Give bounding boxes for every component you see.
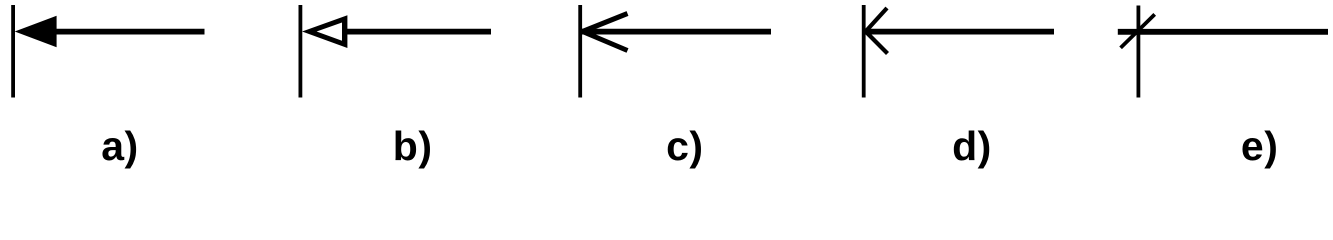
arrow e: terminal vertical line <box>1137 6 1141 98</box>
arrow d: shaft wire <box>866 29 1054 35</box>
arrow b: shaft wire <box>346 29 491 35</box>
arrow c: terminal vertical line <box>578 5 582 98</box>
svg-text:c): c) <box>666 123 703 169</box>
arrow e: shaft wire (overshoots the terminal line) <box>1118 29 1328 35</box>
arrow d: lower barb <box>866 32 888 54</box>
arrow a: shaft wire <box>50 29 205 35</box>
svg-text:b): b) <box>393 123 433 169</box>
arrow a: terminal vertical line <box>11 5 15 98</box>
arrow a: filled triangle arrowhead <box>15 16 57 48</box>
arrow c: lower barb <box>583 32 628 51</box>
arrow c: upper barb <box>583 14 628 32</box>
svg-text:e): e) <box>1241 123 1278 169</box>
arrow d: upper barb <box>866 8 887 32</box>
arrow d: terminal vertical line <box>862 5 866 98</box>
arrow b: open triangle arrowhead <box>302 15 347 48</box>
arrow b: terminal vertical line <box>298 5 302 98</box>
arrow c: shaft wire <box>582 29 771 35</box>
svg-text:a): a) <box>101 123 138 169</box>
arrow e: tick slash <box>1121 14 1155 47</box>
svg-text:d): d) <box>952 123 992 169</box>
